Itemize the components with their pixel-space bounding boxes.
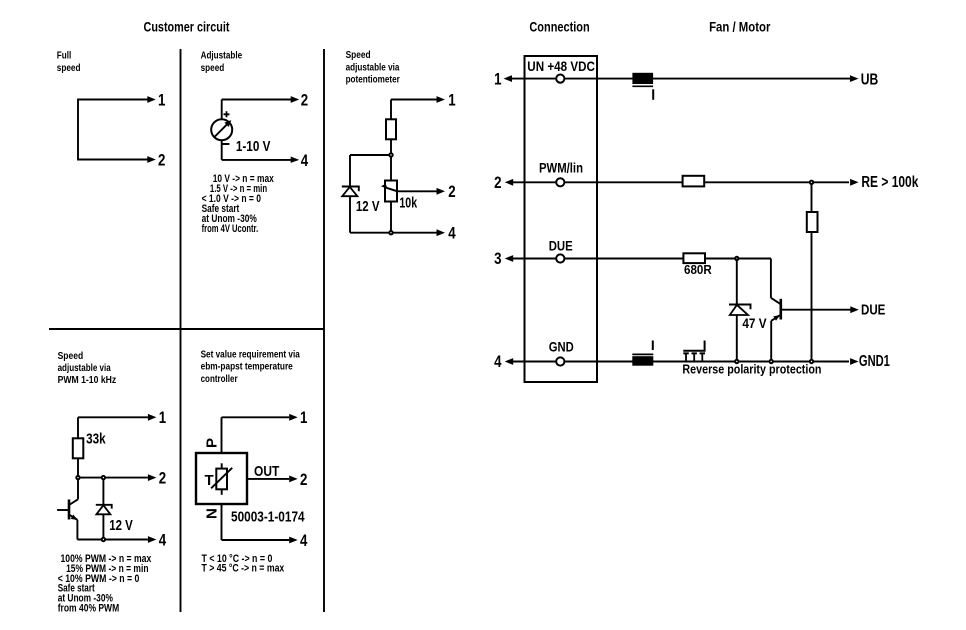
- svg-text:1: 1: [159, 408, 166, 427]
- svg-text:Adjustable: Adjustable: [201, 50, 243, 62]
- svg-text:speed: speed: [201, 62, 225, 74]
- svg-text:3: 3: [494, 249, 501, 268]
- svg-text:GND: GND: [549, 339, 574, 354]
- svg-text:12 V: 12 V: [356, 198, 380, 215]
- svg-text:1-10 V: 1-10 V: [236, 138, 271, 155]
- svg-text:N: N: [204, 508, 221, 519]
- svg-text:from 40% PWM: from 40% PWM: [58, 603, 119, 615]
- svg-text:potentiometer: potentiometer: [346, 74, 400, 86]
- svg-text:Fan / Motor: Fan / Motor: [709, 19, 771, 34]
- svg-text:4: 4: [301, 151, 309, 170]
- svg-text:UN +48 VDC: UN +48 VDC: [527, 59, 595, 74]
- svg-text:DUE: DUE: [549, 238, 573, 253]
- svg-text:10k: 10k: [399, 195, 417, 212]
- svg-text:Customer circuit: Customer circuit: [144, 19, 230, 34]
- svg-text:controller: controller: [201, 373, 238, 385]
- svg-text:4: 4: [494, 352, 502, 371]
- svg-text:33k: 33k: [86, 430, 106, 447]
- svg-text:ebm-papst temperature: ebm-papst temperature: [201, 361, 293, 373]
- svg-text:adjustable via: adjustable via: [346, 61, 400, 73]
- svg-text:Speed: Speed: [346, 49, 371, 61]
- svg-text:adjustable via: adjustable via: [58, 362, 111, 374]
- svg-text:Connection: Connection: [529, 19, 589, 34]
- svg-text:PWM 1-10 kHz: PWM 1-10 kHz: [58, 374, 117, 386]
- svg-text:4: 4: [159, 530, 167, 549]
- svg-text:2: 2: [448, 182, 455, 201]
- svg-text:Speed: Speed: [58, 350, 84, 362]
- svg-text:2: 2: [301, 90, 308, 109]
- svg-text:4: 4: [300, 531, 308, 550]
- svg-text:4: 4: [448, 224, 456, 243]
- svg-text:Full: Full: [57, 50, 72, 62]
- svg-text:Reverse polarity protection: Reverse polarity protection: [682, 361, 821, 376]
- svg-text:1: 1: [158, 90, 165, 109]
- svg-text:P: P: [204, 438, 221, 448]
- svg-text:50003-1-0174: 50003-1-0174: [231, 508, 305, 525]
- svg-text:2: 2: [159, 469, 166, 488]
- svg-text:speed: speed: [57, 62, 81, 74]
- svg-text:2: 2: [300, 470, 307, 489]
- svg-text:12 V: 12 V: [109, 517, 133, 534]
- svg-text:T > 45 °C -> n = max: T > 45 °C -> n = max: [202, 563, 285, 575]
- svg-text:from 4V Ucontr.: from 4V Ucontr.: [202, 223, 259, 235]
- svg-text:680R: 680R: [684, 262, 712, 277]
- svg-text:1: 1: [300, 408, 307, 427]
- svg-text:2: 2: [158, 150, 165, 169]
- svg-text:DUE: DUE: [861, 303, 886, 319]
- svg-text:47 V: 47 V: [742, 316, 766, 331]
- svg-text:UB: UB: [861, 71, 879, 88]
- svg-text:1: 1: [448, 90, 455, 109]
- svg-text:OUT: OUT: [254, 463, 279, 480]
- svg-text:2: 2: [494, 173, 501, 192]
- svg-text:1: 1: [494, 69, 501, 88]
- svg-text:Set value requirement via: Set value requirement via: [201, 348, 300, 360]
- svg-text:RE > 100k: RE > 100k: [861, 174, 918, 191]
- svg-text:PWM/lin: PWM/lin: [539, 160, 583, 175]
- svg-text:GND1: GND1: [859, 353, 890, 370]
